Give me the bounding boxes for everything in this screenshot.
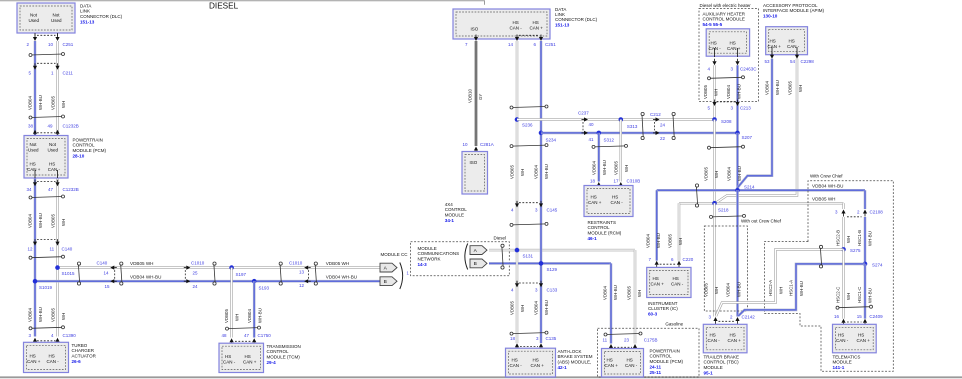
wire VDB05 WH left horizontal [58, 266, 381, 268]
svg-text:WH-BU: WH-BU [613, 285, 618, 300]
svg-text:12: 12 [299, 283, 305, 288]
connector symbol above C135 [512, 333, 547, 334]
svg-text:CAN +: CAN + [857, 338, 871, 343]
svg-text:ACTUATOR: ACTUATOR [72, 353, 97, 358]
wire VDB05 WH IC drop [678, 203, 680, 260]
svg-text:C213: C213 [740, 105, 751, 110]
connector C211 left [37, 62, 56, 64]
svg-text:25: 25 [193, 270, 199, 275]
svg-text:VDB05: VDB05 [510, 301, 515, 315]
svg-text:WH-BU: WH-BU [544, 164, 549, 179]
svg-text:HS: HS [245, 354, 251, 359]
svg-text:WH-BU: WH-BU [775, 80, 780, 95]
svg-text:CAN -: CAN - [836, 338, 849, 343]
svg-text:VDB04: VDB04 [765, 81, 770, 95]
svg-text:WH-BU: WH-BU [544, 300, 549, 315]
off-page connector B right [470, 259, 487, 268]
svg-text:S208: S208 [721, 119, 732, 124]
wire HSC1-C WH-BU S274 to telematics [864, 264, 867, 319]
svg-text:HS: HS [612, 195, 618, 200]
wire VDB05 WH aux drop [713, 65, 715, 119]
svg-text:HS: HS [770, 39, 776, 44]
svg-text:WH-BU: WH-BU [868, 231, 873, 246]
splice S1015 [55, 265, 60, 270]
svg-text:95-1: 95-1 [704, 370, 714, 375]
page bottom border [0, 376, 962, 378]
splice S197 [229, 265, 234, 270]
svg-text:CAN -: CAN - [48, 167, 61, 172]
svg-text:C2409: C2409 [869, 314, 883, 319]
wire VDB04 WH-BU from B to S129 run [489, 262, 611, 265]
splice S236 [515, 117, 520, 122]
wire VDB05 WH drop to TCM [230, 268, 232, 338]
svg-text:151-13: 151-13 [80, 19, 95, 24]
svg-text:CAN +: CAN + [27, 167, 41, 172]
svg-text:Used: Used [28, 147, 39, 152]
svg-text:VDB05: VDB05 [703, 85, 708, 99]
svg-text:S218: S218 [718, 208, 729, 213]
svg-text:S234: S234 [546, 138, 557, 143]
svg-text:CAN -: CAN - [625, 363, 638, 368]
svg-text:53: 53 [765, 59, 771, 64]
svg-text:34: 34 [27, 187, 33, 192]
off-page connector A right [470, 246, 487, 255]
svg-text:HSC2-C: HSC2-C [836, 287, 841, 303]
svg-text:11: 11 [603, 337, 608, 342]
svg-text:S193: S193 [259, 286, 270, 291]
connector symbol above C1232B [31, 117, 64, 118]
module TCM box [219, 343, 264, 372]
svg-text:C145: C145 [547, 208, 558, 213]
svg-text:WH: WH [624, 165, 629, 172]
svg-text:48: 48 [222, 333, 228, 338]
svg-text:C1010: C1010 [289, 260, 303, 265]
splice S207 [735, 131, 740, 136]
svg-text:WH: WH [846, 236, 851, 243]
svg-text:DIESEL: DIESEL [209, 1, 239, 10]
svg-text:42-1: 42-1 [558, 365, 568, 370]
wire HSC2-A WH S275 to TBC [716, 249, 844, 316]
svg-text:CONNECTOR (DLC): CONNECTOR (DLC) [80, 14, 123, 19]
wire VDB05 WH APIM to S218 [717, 59, 798, 203]
wire VDB04 WH-BU aux drop [736, 65, 739, 133]
svg-text:MODULE (PCM): MODULE (PCM) [73, 148, 107, 153]
svg-text:VDB04 WH-BU: VDB04 WH-BU [326, 274, 357, 279]
svg-text:S131: S131 [523, 254, 534, 259]
svg-text:60-3: 60-3 [648, 312, 658, 317]
module APIM box [766, 27, 808, 55]
svg-text:WH: WH [714, 287, 719, 294]
svg-text:34-1: 34-1 [445, 218, 455, 223]
svg-text:CAN +: CAN + [243, 360, 257, 365]
svg-text:VDB04: VDB04 [534, 165, 539, 179]
wire VDB05 WH S208 to S218 [713, 120, 715, 204]
connector symbol above C1750 [227, 328, 259, 329]
svg-text:C212: C212 [650, 112, 661, 117]
svg-text:MODULE: MODULE [445, 212, 464, 217]
svg-text:C175B: C175B [644, 337, 658, 342]
svg-text:Diesel with electric heater: Diesel with electric heater [700, 3, 752, 8]
svg-text:CAN -: CAN - [47, 359, 60, 364]
svg-text:HSC1-C: HSC1-C [857, 287, 862, 303]
inline connector capsule Diesel boundary [501, 244, 504, 247]
svg-text:CAN -: CAN - [510, 363, 523, 368]
svg-text:HS: HS [533, 20, 539, 25]
inline connector capsule [213, 262, 216, 265]
svg-text:24-11: 24-11 [650, 364, 662, 369]
connector C212 inline capsule left [641, 112, 644, 115]
svg-text:10: 10 [48, 42, 54, 47]
wire VDB04 WH-BU crew corner down [864, 190, 867, 209]
svg-text:MODULE: MODULE [704, 365, 723, 370]
svg-text:CAN +: CAN + [768, 44, 782, 49]
wire HSC1-B WH-BU C2108 to S274 [864, 217, 867, 264]
connector symbol above C175B [606, 334, 641, 335]
wire VDB05 WH from A to S131 run [489, 249, 635, 251]
svg-text:141-1: 141-1 [833, 365, 845, 370]
module PCM gasoline box [602, 349, 644, 378]
svg-text:VDB04: VDB04 [534, 301, 539, 315]
svg-text:VDB04 WH-BU: VDB04 WH-BU [130, 274, 161, 279]
svg-text:Not: Not [53, 13, 61, 18]
wire VDB04 WH-BU horizontal S214 [657, 189, 865, 192]
svg-text:HS: HS [512, 358, 518, 363]
svg-text:VDB05: VDB05 [51, 308, 56, 322]
svg-text:17: 17 [614, 179, 620, 184]
svg-text:CONNECTOR (DLC): CONNECTOR (DLC) [555, 17, 598, 22]
svg-text:ISO: ISO [470, 160, 478, 165]
off-page connector A left [380, 263, 397, 272]
svg-text:VDB04: VDB04 [28, 308, 33, 322]
svg-text:CAN +: CAN + [727, 46, 741, 51]
module TELEMATICS box [833, 324, 877, 353]
svg-text:C2142: C2142 [742, 314, 756, 319]
connector C133 pins 4 3 [519, 282, 539, 284]
connector symbol aux [709, 77, 743, 78]
module 4X4 control module ISO box [462, 152, 488, 195]
svg-text:24: 24 [193, 284, 199, 289]
module AUX heater box [706, 29, 749, 56]
svg-text:47: 47 [48, 187, 54, 192]
inline connector capsule [77, 262, 80, 265]
connector C251 left [34, 33, 36, 36]
svg-text:VDB04: VDB04 [28, 214, 33, 228]
module IC box [647, 267, 691, 297]
opening parenthesis [465, 244, 468, 270]
svg-text:HSC2-A: HSC2-A [768, 280, 773, 296]
svg-text:MODULE (PCM): MODULE (PCM) [650, 359, 684, 364]
svg-text:VDB04: VDB04 [727, 167, 732, 181]
svg-text:MODULE (TCM): MODULE (TCM) [267, 354, 301, 359]
svg-text:C2463C: C2463C [740, 67, 757, 72]
svg-text:HS: HS [711, 41, 717, 46]
svg-text:WH: WH [714, 171, 719, 178]
svg-text:WH-BU: WH-BU [737, 282, 742, 297]
svg-text:WH-BU: WH-BU [38, 95, 43, 110]
svg-text:S274: S274 [872, 263, 883, 268]
svg-text:CAN +: CAN + [651, 282, 665, 287]
svg-text:HS: HS [607, 358, 613, 363]
svg-text:38: 38 [28, 124, 34, 129]
wire VDB05 WH mid vertical [516, 41, 518, 343]
svg-text:VDB05: VDB05 [51, 214, 56, 228]
svg-text:VDB10: VDB10 [468, 89, 473, 103]
svg-text:VDB04: VDB04 [603, 286, 608, 300]
svg-text:VDB05 WH: VDB05 WH [812, 197, 836, 202]
svg-text:C2108: C2108 [870, 210, 884, 215]
svg-text:CAN -: CAN - [708, 338, 721, 343]
svg-text:HS: HS [627, 358, 633, 363]
svg-text:HS: HS [49, 354, 55, 359]
svg-text:With out Crew Chief: With out Crew Chief [741, 218, 782, 223]
svg-text:HS: HS [30, 354, 36, 359]
svg-text:24: 24 [660, 123, 666, 128]
svg-text:CONTROL MODULE: CONTROL MODULE [703, 17, 745, 22]
svg-text:HS: HS [710, 333, 716, 338]
svg-text:S1019: S1019 [39, 285, 53, 290]
svg-text:With Crew Chief: With Crew Chief [810, 174, 843, 179]
svg-text:HS: HS [533, 358, 539, 363]
svg-text:(ABS) MODULE,: (ABS) MODULE, [558, 359, 592, 364]
svg-text:Not: Not [49, 142, 57, 147]
svg-text:S129: S129 [547, 267, 558, 272]
svg-text:VDB05 WH: VDB05 WH [130, 261, 154, 266]
svg-text:54-5 55-5: 54-5 55-5 [703, 22, 723, 27]
svg-text:C251: C251 [545, 42, 556, 47]
wire VDB04 WH-BU IC drop [655, 190, 658, 260]
svg-text:VDB05: VDB05 [668, 234, 673, 248]
wire VDB05 WH crew corner down [842, 203, 844, 209]
svg-text:CAN -: CAN - [223, 360, 236, 365]
splice S1019 [33, 279, 38, 284]
svg-text:VDB05: VDB05 [614, 161, 619, 175]
svg-text:S275: S275 [850, 248, 861, 253]
connector symbol above C2409 [838, 307, 872, 308]
svg-text:HS: HS [49, 162, 55, 167]
svg-text:26-6: 26-6 [72, 359, 82, 364]
module RCM box [584, 186, 633, 217]
svg-text:12: 12 [28, 247, 34, 252]
svg-text:HS: HS [653, 276, 659, 281]
inline connector capsule crew A [819, 245, 822, 248]
svg-text:CAN +: CAN + [588, 200, 602, 205]
dashed box gasoline [598, 328, 699, 377]
svg-text:ISO: ISO [471, 27, 479, 32]
svg-text:Gasoline: Gasoline [665, 321, 683, 326]
wire HSC2-B WH C2108 to S275 [842, 217, 844, 249]
svg-text:C140: C140 [62, 247, 73, 252]
connector DLC (middle) box [453, 9, 550, 39]
svg-text:VDB04: VDB04 [592, 161, 597, 175]
module PCM diesel box [24, 136, 68, 179]
svg-text:S197: S197 [236, 272, 247, 277]
svg-text:HS: HS [838, 333, 844, 338]
splice S131 [515, 248, 520, 253]
module ABS box [506, 348, 556, 377]
svg-text:HS: HS [591, 195, 597, 200]
connector DLC (left) box [17, 3, 75, 33]
splice S234 [539, 131, 544, 136]
svg-text:S214: S214 [744, 185, 755, 190]
wire VDB04 WH-BU drop to TCM [253, 281, 256, 337]
inline connector capsule [279, 262, 282, 265]
svg-text:14: 14 [104, 270, 110, 275]
svg-text:CAN -: CAN - [611, 200, 624, 205]
wire VDB05 WH S218 to TBC [713, 203, 715, 316]
svg-text:VDB05: VDB05 [224, 309, 229, 323]
svg-text:Not: Not [30, 13, 38, 18]
svg-text:C135: C135 [546, 336, 557, 341]
svg-text:25-11: 25-11 [650, 370, 662, 375]
splice S214 [735, 188, 740, 193]
svg-text:WH: WH [798, 85, 803, 92]
svg-text:C1010: C1010 [191, 260, 205, 265]
svg-text:HS: HS [858, 333, 864, 338]
svg-text:C251: C251 [63, 42, 74, 47]
svg-text:29-4: 29-4 [267, 360, 277, 365]
wire VDB05 WH to PCM gas [634, 250, 636, 343]
svg-text:WH: WH [846, 293, 851, 300]
svg-text:CAN +: CAN + [530, 26, 544, 31]
svg-text:WH-BU: WH-BU [38, 307, 43, 322]
svg-text:MODULE (RCM): MODULE (RCM) [588, 230, 622, 235]
svg-text:C211: C211 [63, 71, 74, 76]
svg-text:15: 15 [857, 314, 863, 319]
svg-text:HSC1-A: HSC1-A [789, 280, 794, 296]
svg-text:VDB05: VDB05 [510, 165, 515, 179]
splice S208 [712, 117, 717, 122]
svg-text:NETWORK: NETWORK [418, 256, 441, 261]
wire VDB04 WH-BU APIM to S214 [738, 59, 773, 191]
wire VDB05 WH horizontal S218 [679, 202, 844, 204]
svg-text:18: 18 [590, 179, 596, 184]
connector symbol below S218 [711, 216, 744, 217]
dashed box without crew chief [704, 226, 747, 311]
svg-text:15: 15 [105, 284, 111, 289]
svg-text:MODULE: MODULE [833, 360, 852, 365]
svg-text:C1750: C1750 [258, 333, 272, 338]
inline connector capsule [120, 262, 123, 265]
connector symbol above C1390 [31, 327, 64, 328]
svg-text:CAN -: CAN - [510, 26, 523, 31]
svg-text:HS: HS [513, 20, 519, 25]
svg-text:HS: HS [30, 162, 36, 167]
closing parenthesis [400, 263, 403, 290]
svg-text:VDB04: VDB04 [28, 96, 33, 110]
svg-text:VDB04: VDB04 [247, 309, 252, 323]
svg-text:WH-BU: WH-BU [737, 84, 742, 99]
svg-text:WH-BU: WH-BU [737, 166, 742, 181]
svg-text:C237: C237 [578, 111, 589, 116]
wire VDB04 WH-BU left vertical [34, 41, 37, 337]
page top border / diesel section bracket [0, 1, 485, 5]
wire VDB04 WH-BU drop to RCM [597, 133, 600, 182]
svg-text:VDB04: VDB04 [726, 85, 731, 99]
wire VDB05 WH run S236 to S208 [517, 118, 715, 120]
connector C140 pins 12 11 [37, 238, 56, 240]
svg-text:WH: WH [714, 89, 719, 96]
splice S193 [252, 279, 257, 284]
svg-text:CAN +: CAN + [531, 363, 545, 368]
svg-text:WH: WH [520, 169, 525, 176]
splice S313 [619, 117, 624, 122]
svg-text:VDB05 WH: VDB05 WH [326, 261, 350, 266]
svg-text:WH: WH [520, 305, 525, 312]
svg-text:B: B [474, 261, 477, 267]
svg-text:GY: GY [478, 94, 483, 100]
connector symbol below C145 [512, 224, 547, 225]
wire VDB04 WH-BU to PCM gas [610, 263, 613, 343]
svg-text:VDB05: VDB05 [704, 283, 709, 297]
svg-text:Used: Used [51, 18, 62, 23]
splice S274 [863, 262, 868, 267]
wire VDB04 WH-BU S214 to TBC [736, 190, 739, 316]
svg-text:18: 18 [510, 336, 516, 341]
svg-text:VDB05: VDB05 [627, 286, 632, 300]
svg-text:16: 16 [834, 314, 840, 319]
svg-text:14: 14 [508, 42, 514, 47]
svg-text:WH-BU: WH-BU [258, 308, 263, 323]
svg-text:CAN -: CAN - [787, 44, 800, 49]
connector C251 middle [475, 36, 477, 39]
svg-text:S236: S236 [522, 123, 533, 128]
wire HSC1-A WH-BU S274 to TBC [738, 264, 865, 316]
svg-text:WH: WH [779, 287, 784, 294]
svg-text:Used: Used [29, 18, 40, 23]
svg-text:HS: HS [789, 39, 795, 44]
wire VDB05 WH drop to RCM [620, 120, 622, 182]
svg-text:13: 13 [299, 270, 305, 275]
svg-text:WH: WH [61, 101, 66, 108]
svg-text:CLUSTER (IC): CLUSTER (IC) [648, 306, 678, 311]
connector symbol below C140 [31, 257, 64, 258]
svg-text:WH-BU: WH-BU [868, 288, 873, 303]
dashed box MODULE COMMUNICATIONS NETWORK 14-3 [411, 242, 510, 276]
wire VDB05 WH left vertical [56, 41, 58, 337]
svg-text:WH: WH [235, 314, 240, 321]
svg-text:WH: WH [637, 290, 642, 297]
inline connector capsule crew [695, 184, 698, 187]
svg-text:S207: S207 [742, 135, 753, 140]
splice S275 [841, 247, 846, 252]
svg-text:HS: HS [730, 41, 736, 46]
svg-text:49: 49 [48, 124, 54, 129]
svg-text:CAN -: CAN - [671, 282, 684, 287]
svg-text:B: B [384, 279, 387, 285]
svg-text:HS: HS [730, 333, 736, 338]
svg-text:C1232B: C1232B [63, 187, 79, 192]
svg-text:54: 54 [790, 59, 796, 64]
svg-text:WH-BU: WH-BU [656, 233, 661, 248]
wire VDB04 WH-BU mid vertical [540, 41, 543, 343]
svg-text:WH-BU: WH-BU [602, 160, 607, 175]
svg-text:VDB05: VDB05 [51, 96, 56, 110]
svg-text:Diesel: Diesel [494, 235, 507, 240]
connector symbol RCM drop [594, 146, 627, 147]
svg-text:HSC2-B: HSC2-B [836, 230, 841, 246]
svg-text:S312: S312 [604, 138, 615, 143]
svg-text:Not: Not [30, 142, 38, 147]
svg-text:S1015: S1015 [62, 271, 76, 276]
svg-text:VDB04 WH-BU: VDB04 WH-BU [812, 184, 843, 189]
svg-text:C1232B: C1232B [63, 124, 79, 129]
svg-text:WH-BU: WH-BU [38, 213, 43, 228]
svg-text:VDB05: VDB05 [788, 81, 793, 95]
svg-text:151-13: 151-13 [555, 23, 570, 28]
svg-text:130-10: 130-10 [763, 14, 778, 19]
connector C2298 pins 53 54 [771, 47, 773, 55]
wire VDB04 WH-BU left horizontal [35, 280, 380, 283]
